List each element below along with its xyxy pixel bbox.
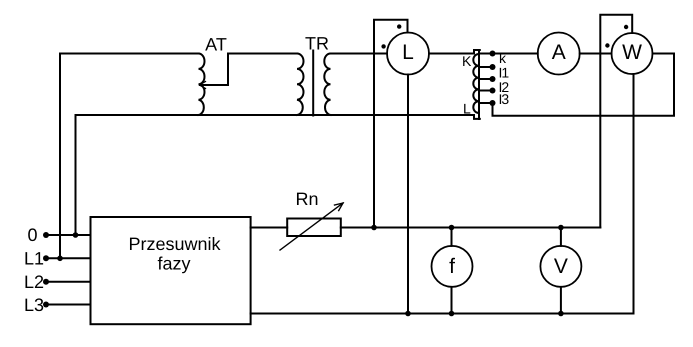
svg-text:f: f <box>449 255 455 278</box>
wire terminal L1 <box>46 257 91 259</box>
wire AT tap to TR primary top <box>228 53 297 55</box>
meter L polarity dot lower <box>381 44 385 48</box>
svg-text:A: A <box>552 41 566 64</box>
label meter L <box>402 41 414 64</box>
wire terminal 0 <box>46 234 91 236</box>
CT tap stub I2 <box>480 90 493 92</box>
resistor Rn arrow <box>280 203 343 250</box>
label meter V <box>554 255 568 278</box>
transformer TR primary coil <box>297 54 304 116</box>
svg-text:AT: AT <box>205 35 227 55</box>
label terminal 0 <box>28 225 38 245</box>
meter L circle <box>387 33 429 75</box>
transformer TR secondary coil <box>324 54 330 116</box>
wire middle bus from Rn to W voltage terminal <box>341 227 601 229</box>
CT tap stub I3 <box>480 102 493 104</box>
label CT I3 <box>499 91 510 107</box>
junction dot 0 wire <box>73 232 79 238</box>
label AT <box>205 35 227 55</box>
wire CT k to meter A <box>480 53 538 55</box>
label meter f <box>449 255 455 278</box>
svg-text:Rn: Rn <box>295 189 318 209</box>
wire meter f bottom stub <box>451 287 453 314</box>
meter f circle <box>432 246 473 287</box>
svg-text:Przesuwnik: Przesuwnik <box>128 234 221 254</box>
wire terminal L2 <box>46 281 91 283</box>
svg-text:L2: L2 <box>24 272 44 292</box>
junction dot V top <box>558 225 564 231</box>
junction dot L bottom bus <box>405 311 411 317</box>
svg-text:TR: TR <box>305 34 329 54</box>
junction dot V bottom <box>558 311 564 317</box>
svg-text:L: L <box>402 41 414 64</box>
current transformer CT winding <box>473 54 479 113</box>
svg-text:L3: L3 <box>24 295 44 315</box>
svg-text:W: W <box>622 41 642 64</box>
transformer TR core <box>312 51 314 116</box>
wire top bus left segment <box>60 53 199 55</box>
terminal dot L2 <box>43 279 49 285</box>
junction dot L1 wire <box>57 255 63 261</box>
wire meter L bottom to lower bus <box>407 75 409 314</box>
label meter A <box>552 41 566 64</box>
label CT k <box>499 50 507 66</box>
terminal dot 0 <box>43 232 49 238</box>
meter L box <box>374 20 408 228</box>
CT tap stub I1 <box>480 78 493 80</box>
CT tap dot I3 <box>490 100 496 106</box>
CT tap dot 3 <box>490 88 496 94</box>
wire left vertical from top bus to L1 <box>59 54 61 259</box>
label Rn <box>295 189 318 209</box>
meter W box <box>600 15 632 228</box>
CT tap dot 1 <box>490 64 496 70</box>
wire meter A to meter W <box>580 53 612 55</box>
wire phase shifter to Rn <box>251 227 288 229</box>
autotransformer AT coil <box>199 54 205 116</box>
meter A circle <box>538 33 580 75</box>
label terminal L3 <box>24 295 44 315</box>
label TR <box>305 34 329 54</box>
meter W circle <box>612 33 653 74</box>
wire TR secondary top to meter L <box>331 53 388 55</box>
CT terminal dot k <box>490 51 496 57</box>
wire CT bottom hop <box>474 115 480 119</box>
wire meter V top stub <box>560 228 562 246</box>
meter W polarity dot lower <box>605 43 609 47</box>
svg-text:K: K <box>462 53 472 69</box>
junction dot L voltage to middle bus <box>371 225 377 231</box>
current transformer CT core bar <box>478 50 480 119</box>
wire meter V bottom stub <box>560 287 562 314</box>
phase shifter box <box>91 217 251 324</box>
autotransformer AT tap wire with arrow <box>200 54 229 89</box>
label CT K <box>462 53 472 69</box>
terminal dot L1 <box>43 255 49 261</box>
svg-text:L1: L1 <box>24 249 44 269</box>
wire CT top hop <box>474 50 480 54</box>
terminal dot L3 <box>43 302 49 308</box>
wire bottom bus from corner to CT <box>76 114 475 116</box>
wire meter L to CT primary <box>429 53 474 55</box>
meter L polarity dot upper <box>397 24 401 28</box>
CT tap dot 2 <box>490 76 496 82</box>
label CT I1 <box>499 65 510 81</box>
wire terminal L3 <box>46 304 91 306</box>
CT tap stub k <box>480 66 493 68</box>
junction dot f bottom <box>449 311 455 317</box>
wire meter W right loop to I3 return <box>493 54 675 116</box>
label phase shifter line1 <box>128 234 221 254</box>
svg-text:V: V <box>554 255 568 278</box>
wire meter f top stub <box>451 228 453 246</box>
svg-text:I3: I3 <box>499 91 510 107</box>
junction dot f top <box>449 225 455 231</box>
label CT L <box>463 101 471 117</box>
label terminal L2 <box>24 272 44 292</box>
label phase shifter line2 <box>157 254 190 274</box>
meter W polarity dot upper <box>624 25 628 29</box>
svg-text:0: 0 <box>28 225 38 245</box>
label CT I2 <box>499 79 510 95</box>
meter V circle <box>540 246 581 287</box>
label terminal L1 <box>24 249 44 269</box>
label meter W <box>622 41 642 64</box>
wire left vertical from bottom bus to 0 <box>75 115 77 235</box>
wire bottom bus to meter W current return <box>251 74 634 314</box>
svg-text:fazy: fazy <box>157 254 190 274</box>
svg-text:L: L <box>463 101 471 117</box>
resistor Rn body <box>287 219 341 237</box>
